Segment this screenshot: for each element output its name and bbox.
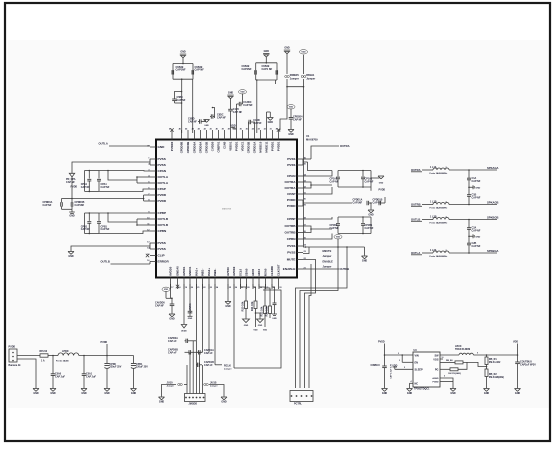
svg-text:CAP NF: CAP NF: [365, 227, 374, 230]
svg-text:GND: GND: [475, 187, 480, 189]
svg-text:PVDD: PVDD: [71, 185, 78, 188]
svg-text:GND: GND: [50, 392, 56, 395]
svg-text:ENABLE: ENABLE: [323, 260, 334, 263]
svg-text:0M.Fx98(96k): 0M.Fx98(96k): [489, 376, 504, 379]
svg-text:CPDD1B: CPDD1B: [205, 142, 209, 154]
svg-text:CAP NF: CAP NF: [177, 99, 186, 102]
svg-text:6: 6: [444, 376, 445, 378]
svg-text:CAP 2uF: CAP 2uF: [86, 375, 96, 378]
svg-text:PG: PG: [435, 368, 439, 371]
svg-text:GND: GND: [379, 182, 384, 184]
svg-text:9: 9: [477, 352, 478, 354]
svg-text:NVDD10: NVDD10: [259, 141, 263, 152]
svg-text:CAP NF: CAP NF: [472, 230, 481, 233]
svg-text:SDA0: SDA0: [245, 268, 249, 276]
svg-text:OUTLA: OUTLA: [158, 175, 169, 179]
svg-text:AVDD: AVDD: [181, 329, 187, 332]
svg-text:VDD01: VDD01: [229, 141, 233, 150]
svg-text:TDK445-DKM: TDK445-DKM: [455, 348, 470, 351]
svg-text:CAP nF: CAP nF: [204, 364, 213, 367]
svg-text:CAP NF: CAP NF: [155, 304, 164, 307]
svg-text:SPKAGB: SPKAGB: [487, 201, 499, 205]
svg-text:INB1-: INB1-: [201, 269, 205, 276]
svg-text:VDD: VDD: [240, 92, 245, 94]
svg-text:VDD: VDD: [253, 330, 258, 332]
svg-text:GND: GND: [484, 392, 490, 395]
svg-text:GND: GND: [382, 392, 388, 395]
svg-text:Banana Jk: Banana Jk: [9, 364, 22, 367]
svg-text:CAP NF: CAP NF: [43, 204, 52, 207]
svg-text:GND: GND: [258, 325, 263, 327]
svg-text:GND: GND: [81, 392, 87, 395]
svg-text:CPBN: CPBN: [287, 237, 297, 241]
svg-text:CREF01: CREF01: [217, 141, 221, 152]
svg-text:MAX9709: MAX9709: [222, 208, 232, 211]
svg-text:TPS62TDQC1: TPS62TDQC1: [414, 387, 430, 390]
svg-text:GND: GND: [288, 133, 294, 136]
svg-text:CAP nF: CAP nF: [168, 340, 177, 343]
svg-text:PVDD: PVDD: [378, 341, 385, 344]
svg-text:PVDD: PVDD: [158, 199, 167, 203]
svg-text:CAP NF: CAP NF: [233, 111, 243, 114]
svg-text:RFU10: RFU10: [40, 350, 48, 353]
svg-text:MUTE: MUTE: [287, 258, 296, 262]
svg-text:VDD: VDD: [289, 107, 294, 109]
svg-text:AVDD1: AVDD1: [182, 266, 186, 276]
svg-text:RCLK: RCLK: [224, 365, 231, 368]
svg-text:GND: GND: [221, 401, 227, 404]
svg-text:AVDD2: AVDD2: [232, 266, 236, 276]
svg-text:SPKAGA: SPKAGA: [487, 166, 499, 170]
svg-text:PVDD: PVDD: [158, 193, 167, 197]
svg-text:CPAP: CPAP: [287, 192, 295, 196]
svg-text:GND: GND: [362, 260, 368, 263]
svg-text:CAP2uF 6P3V: CAP2uF 6P3V: [520, 364, 536, 367]
svg-text:CLKMD: CLKMD: [270, 266, 274, 276]
svg-text:CAP1NF: CAP1NF: [75, 204, 85, 207]
svg-text:PVSS: PVSS: [158, 247, 166, 251]
svg-text:GND: GND: [264, 50, 270, 53]
svg-text:VDD: VDD: [263, 330, 268, 332]
svg-text:GND: GND: [104, 392, 110, 395]
svg-text:CAP NF: CAP NF: [66, 181, 75, 184]
svg-text:LPDD: LPDD: [62, 350, 69, 353]
svg-text:OUTLA: OUTLA: [99, 142, 108, 146]
svg-text:4: 4: [411, 380, 412, 383]
svg-text:1 A: 1 A: [41, 359, 45, 362]
svg-text:GND: GND: [268, 121, 274, 124]
svg-text:OUTLB: OUTLB: [158, 217, 169, 221]
svg-text:CAP1NF: CAP1NF: [242, 68, 252, 71]
svg-text:Jumper: Jumper: [210, 385, 218, 388]
svg-text:OUTRA: OUTRA: [285, 186, 297, 190]
svg-text:Ferite 3A2800MHz: Ferite 3A2800MHz: [430, 222, 448, 225]
svg-text:CAP NF: CAP NF: [217, 116, 226, 119]
svg-text:EN: EN: [415, 361, 419, 364]
svg-text:GND: GND: [159, 401, 165, 404]
svg-text:AD00: AD00: [251, 268, 255, 276]
svg-text:JMODD: JMODD: [189, 403, 198, 406]
svg-text:AGND: AGND: [432, 377, 439, 380]
svg-text:Jumper: Jumper: [290, 77, 299, 80]
svg-text:R10 10k: R10 10k: [240, 301, 244, 311]
svg-text:CAP NF: CAP NF: [365, 180, 374, 183]
svg-text:NC: NC: [415, 382, 419, 385]
svg-text:ENABLE: ENABLE: [283, 267, 296, 271]
svg-text:CPDD0A: CPDD0A: [193, 142, 197, 154]
svg-text:OUTLB: OUTLB: [158, 223, 169, 227]
svg-text:PVSS: PVSS: [287, 244, 295, 248]
svg-text:OUTLA: OUTLA: [158, 181, 169, 185]
svg-text:GND: GND: [407, 392, 413, 395]
svg-text:CPDD1B: CPDD1B: [247, 142, 251, 154]
svg-text:GND: GND: [450, 392, 456, 395]
svg-text:GNDA0: GNDA0: [176, 266, 180, 276]
svg-text:VDD: VDD: [336, 237, 341, 239]
svg-text:3: 3: [399, 360, 400, 362]
svg-text:U1: U1: [306, 134, 310, 138]
svg-text:PVSS: PVSS: [287, 251, 295, 255]
svg-text:RB_B0: RB_B0: [446, 360, 453, 362]
svg-text:OUTRA: OUTRA: [340, 144, 350, 148]
svg-text:CAP NF: CAP NF: [293, 118, 302, 121]
svg-text:Ferite 3A2800MHz: Ferite 3A2800MHz: [430, 207, 448, 210]
svg-text:CAP NF: CAP NF: [330, 227, 339, 230]
svg-text:GND: GND: [69, 215, 75, 218]
svg-text:R13 10k: R13 10k: [264, 306, 268, 316]
svg-text:PVDD0: PVDD0: [170, 141, 174, 151]
svg-text:PGND: PGND: [432, 381, 439, 383]
svg-text:AVDD0: AVDD0: [169, 266, 173, 276]
svg-text:CAP NF: CAP NF: [472, 180, 481, 183]
svg-text:VDD: VDD: [164, 289, 169, 291]
svg-text:SCL0: SCL0: [239, 268, 243, 276]
svg-text:PVSS: PVSS: [287, 163, 295, 167]
svg-text:CAP1 NF: CAP1 NF: [262, 68, 273, 71]
svg-text:ERROR: ERROR: [158, 260, 170, 264]
svg-text:CLKOUT: CLKOUT: [277, 264, 281, 276]
svg-text:R11 10k: R11 10k: [250, 301, 254, 311]
svg-text:CPBP: CPBP: [158, 211, 167, 215]
svg-text:CLIP: CLIP: [158, 254, 165, 258]
svg-text:CPBN: CPBN: [158, 229, 168, 233]
svg-text:SLEEP: SLEEP: [415, 368, 424, 371]
svg-text:Jumper: Jumper: [306, 77, 315, 80]
svg-text:CAP NF: CAP NF: [81, 186, 90, 189]
svg-text:RSA0: RSA0: [264, 268, 268, 276]
svg-text:GND: GND: [272, 318, 277, 320]
svg-text:SPKBGA: SPKBGA: [487, 249, 499, 253]
svg-text:PVDD1: PVDD1: [271, 141, 275, 151]
svg-text:2: 2: [398, 353, 399, 355]
svg-text:CAP NF: CAP NF: [243, 104, 253, 107]
svg-text:NVDD11: NVDD11: [265, 141, 269, 152]
svg-text:GND: GND: [158, 145, 166, 149]
svg-text:SPKBGB: SPKBGB: [487, 216, 499, 220]
svg-text:CAP nF: CAP nF: [168, 352, 177, 355]
svg-text:CAP1NF: CAP1NF: [353, 201, 363, 204]
svg-text:OUTLB: OUTLB: [101, 260, 110, 264]
svg-text:CPBP: CPBP: [287, 217, 296, 221]
svg-text:GND01: GND01: [188, 266, 192, 276]
svg-text:Jumper: Jumper: [323, 266, 332, 269]
svg-text:CAP 2.2uF 6.3V: CAP 2.2uF 6.3V: [390, 363, 393, 378]
svg-text:PVDD: PVDD: [101, 341, 108, 344]
svg-text:VDDC1: VDDC1: [241, 141, 245, 151]
svg-text:INB2-: INB2-: [213, 269, 217, 276]
svg-text:PVDD: PVDD: [379, 188, 386, 191]
svg-text:PVDD1: PVDD1: [235, 141, 239, 151]
svg-text:Jumper: Jumper: [167, 385, 175, 388]
svg-text:PVDD: PVDD: [287, 204, 296, 208]
svg-text:CPDD0B: CPDD0B: [180, 142, 184, 154]
svg-text:Jumper: Jumper: [224, 368, 232, 371]
svg-text:GND: GND: [33, 392, 39, 395]
svg-text:GND: GND: [180, 51, 186, 54]
svg-text:VDD: VDD: [513, 341, 518, 344]
svg-text:GND: GND: [188, 318, 193, 320]
svg-text:GND: GND: [228, 92, 234, 95]
svg-text:CINBUX: CINBUX: [371, 364, 381, 367]
svg-text:OUTRB: OUTRB: [285, 231, 297, 235]
svg-text:PVSS: PVSS: [158, 241, 166, 245]
svg-text:Ferite 3A2800MHz: Ferite 3A2800MHz: [430, 172, 448, 175]
svg-text:10K PG(0402): 10K PG(0402): [448, 372, 461, 375]
svg-text:CAP1NF: CAP1NF: [176, 69, 186, 72]
svg-text:GND: GND: [68, 255, 74, 258]
svg-text:EMUTE: EMUTE: [323, 250, 332, 253]
svg-text:CPAN: CPAN: [287, 174, 296, 178]
svg-text:VDD: VDD: [301, 52, 306, 54]
svg-text:Ferite 3A2800MHz: Ferite 3A2800MHz: [430, 255, 448, 258]
svg-text:CAP NF: CAP NF: [188, 120, 197, 123]
svg-text:220uF 25V: 220uF 25V: [136, 366, 148, 369]
svg-text:CAP NF: CAP NF: [81, 228, 90, 231]
svg-text:CPAN: CPAN: [158, 169, 167, 173]
svg-text:PVDD: PVDD: [287, 198, 296, 202]
svg-text:CAP NF: CAP NF: [472, 245, 481, 248]
svg-text:VIN: VIN: [415, 354, 419, 357]
svg-text:OUTRA: OUTRA: [285, 180, 297, 184]
svg-text:220uF 25V: 220uF 25V: [110, 366, 122, 369]
svg-text:CAP NF: CAP NF: [195, 69, 205, 72]
svg-text:MAX9709: MAX9709: [306, 138, 318, 142]
svg-text:PVDD: PVDD: [9, 346, 16, 349]
svg-text:SW: SW: [434, 354, 439, 357]
svg-text:CAP 2uF: CAP 2uF: [55, 375, 65, 378]
svg-text:AVSS0: AVSS0: [226, 267, 230, 276]
svg-text:CAP nF: CAP nF: [204, 352, 213, 355]
svg-text:Jumper: Jumper: [323, 255, 332, 258]
svg-text:GND: GND: [284, 47, 290, 50]
svg-text:PVSS: PVSS: [287, 157, 295, 161]
svg-text:GND: GND: [475, 236, 480, 238]
svg-text:PVSS: PVSS: [158, 163, 166, 167]
svg-text:CAP NF: CAP NF: [101, 186, 110, 189]
svg-text:INA1+: INA1+: [195, 268, 199, 276]
svg-text:GND: GND: [244, 325, 249, 327]
svg-text:PVDD1: PVDD1: [277, 141, 281, 151]
svg-text:INA2+: INA2+: [207, 268, 211, 276]
svg-text:CAP NF: CAP NF: [101, 228, 110, 231]
svg-text:GND: GND: [131, 392, 137, 395]
svg-text:CAP NF: CAP NF: [472, 197, 481, 200]
svg-text:GND: GND: [515, 392, 521, 395]
svg-text:OUTRB: OUTRB: [285, 224, 297, 228]
svg-text:GND: GND: [225, 305, 231, 308]
svg-text:CPDD0A: CPDD0A: [199, 142, 203, 154]
svg-text:JU1B: JU1B: [210, 381, 217, 384]
svg-text:CPDD0B: CPDD0B: [186, 142, 190, 154]
svg-text:10: 10: [442, 357, 444, 359]
svg-text:PCTRL: PCTRL: [294, 403, 303, 406]
svg-text:CPAP: CPAP: [158, 187, 166, 191]
svg-text:AD10: AD10: [257, 268, 261, 276]
svg-text:5: 5: [404, 367, 405, 369]
svg-text:C1N0: C1N0: [223, 141, 227, 149]
svg-text:GND: GND: [204, 125, 209, 127]
svg-text:JU10: JU10: [167, 381, 174, 384]
svg-text:OUTRB: OUTRB: [340, 267, 350, 271]
svg-text:GND: GND: [169, 318, 175, 321]
svg-text:CAP NF: CAP NF: [330, 180, 339, 183]
svg-text:CVDD0: CVDD0: [211, 141, 215, 151]
svg-text:Ferrite 2A400: Ferrite 2A400: [56, 359, 70, 362]
svg-text:GND: GND: [368, 214, 374, 217]
svg-text:PVSS: PVSS: [158, 157, 166, 161]
svg-text:VOS: VOS: [433, 358, 439, 361]
svg-text:CPDD1A: CPDD1A: [253, 142, 257, 154]
svg-text:0M.Fx.962: 0M.Fx.962: [489, 361, 501, 364]
